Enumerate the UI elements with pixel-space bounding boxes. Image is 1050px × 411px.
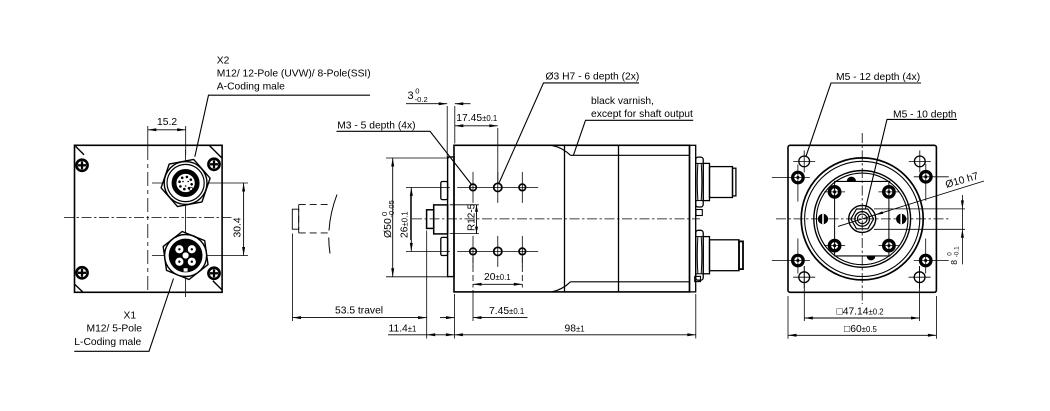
svg-text:11.4±1: 11.4±1 [389,324,417,335]
connector axis vertical line [185,150,187,297]
left view corner chamfer mark bottom-left [75,284,83,292]
svg-text:□47.14±0.2: □47.14±0.2 [837,307,884,318]
right view recess circle inner [816,173,908,265]
right view big flange circle inner [805,161,920,276]
svg-text:-0.2: -0.2 [415,95,428,104]
svg-text:20±0.1: 20±0.1 [484,272,511,283]
front flange plate (3mm, dia 50) [448,157,454,277]
phillips screw bottom-left [76,267,87,278]
middle view horizontal centerline [412,218,700,220]
dimension dia50 extension lines [386,157,449,159]
left view: mounting flange face plate 60x60 [75,145,223,292]
small arrow to body face at travel line [440,317,454,319]
svg-text:-0.1: -0.1 [954,246,961,257]
svg-text:X2: X2 [217,56,230,67]
connector X2 side view on right face [696,157,736,207]
label dia3 leader with underline [499,83,639,184]
connector X2 (M12 12-pole) outer hex nut [161,159,210,206]
dimension 11.4 line and arrows [427,334,455,336]
svg-text:□60±0.5: □60±0.5 [844,324,877,335]
middle view section line 2 [618,145,620,292]
dimension 47.14 extension lines [803,266,805,321]
black side hole right [896,214,906,224]
svg-text:17.45±0.1: 17.45±0.1 [456,113,497,124]
half-disc notch on bottom chord [867,256,875,260]
svg-text:M12/ 12-Pole (UVW)/ 8-Pole(SSI: M12/ 12-Pole (UVW)/ 8-Pole(SSI) [217,69,371,80]
center hub outer circle [849,205,876,232]
dimension 7.45 extension line [472,290,474,321]
dimension 17.45 line and arrows [455,125,498,127]
M3 tapped hole top row 1 [470,184,477,191]
middle view section line 1 [564,145,566,292]
dimension 98 line and arrows [454,334,695,336]
dimension R12-5 extension lines [450,204,479,206]
label M5-10 leader with underline [865,119,957,209]
hole row bottom centerline [457,250,538,252]
svg-text:53.5 travel: 53.5 travel [335,306,383,317]
dimension 26 extension lines [406,186,450,188]
dimension 15.2 extension line right [185,126,187,155]
svg-text:L-Coding male: L-Coding male [74,337,141,348]
counterbored mounting screw hole top-right [921,172,932,183]
svg-text:15.2: 15.2 [157,117,177,128]
svg-text:0: 0 [946,252,953,256]
connector X2 pins [190,183,193,186]
middle view top fillet arc [552,145,571,155]
M5-12depth corner hole bottom-right with crosshair [914,272,925,283]
middle view motor body bottom edge line [571,281,690,283]
svg-text:M12/ 5-Pole: M12/ 5-Pole [87,324,143,335]
phillips screw top-right [208,159,219,170]
svg-text:M5 - 12 depth (4x): M5 - 12 depth (4x) [836,72,920,83]
M3 tapped hole bottom row 2 [519,248,526,255]
svg-text:Ø50: Ø50 [382,218,394,238]
dimension 20 line and arrows [473,283,522,285]
dimension 53.5 travel line and arrows [293,317,427,319]
svg-text:M3 - 5 depth (4x): M3 - 5 depth (4x) [337,121,415,132]
middle view: main housing body outline [454,145,690,292]
dimension 15.2 line and arrows [148,129,186,131]
label X1 leader line [74,279,173,352]
M3 tapped hole bottom row 1 [470,248,477,255]
dimension 53.5 travel extension lines [292,234,294,322]
dimension 60 extension lines [787,296,789,339]
dimension dia50 line and arrows [392,158,394,277]
dia10 h7 leader line [838,181,984,226]
rotor flat chord line left vertical [834,181,836,256]
left view horizontal centerline [64,217,232,219]
label X2 leader line [195,95,370,157]
dimension 8 line with outside arrows [961,195,963,264]
hole dia3 H7 bottom (larger) [494,247,502,255]
half-disc notch on top chord [847,177,855,181]
dimension 98 extension lines [453,294,455,339]
dimension 7.45 line and arrow [473,317,528,319]
connector X2 scallop circle [164,162,207,205]
connector X1 horizontal centerline [152,255,248,257]
dimension 11.4 leader underline [388,334,427,336]
svg-text:Ø3 H7 - 6 depth (2x): Ø3 H7 - 6 depth (2x) [546,72,640,83]
dimension 30.4 line and arrows [243,183,245,256]
counterbored mounting screw hole bottom-left [793,255,804,266]
phillips screw bottom-right [208,268,219,279]
phillips screw top-left [76,160,87,171]
right view: rear housing square [788,145,936,292]
M5-12depth corner hole top-right with crosshair [914,156,925,167]
left view corner chamfer mark bottom-right [213,281,222,290]
rotor flat chord line bottom [834,255,890,257]
output shaft big step [434,205,448,234]
connector X1 black insert disc [169,239,202,272]
svg-text:black varnish,: black varnish, [591,96,654,107]
left view corner chamfer mark top-right [210,146,222,158]
connector X2 horizontal centerline [152,182,248,184]
phantom extended shaft tip rectangle [292,209,298,229]
middle view bottom fillet arc [552,282,571,292]
svg-text:30.4: 30.4 [233,217,244,237]
M3 tapped hole top row 2 [519,184,526,191]
upper dowel boss on front face [441,182,448,200]
left view corner chamfer mark top-left [76,146,84,154]
counterbored mounting screw hole bottom-right [920,255,931,266]
svg-text:26±0.1: 26±0.1 [400,211,411,238]
thin vertical line near shaft tip [409,196,411,240]
black side hole left [818,214,828,224]
svg-text:A-Coding male: A-Coding male [217,82,285,93]
right view recess circle outer [814,171,911,268]
bolt circle cap screw lower-right [884,240,894,250]
dimension 8 extension lines [874,208,965,210]
dimension 26 line and arrows [410,187,412,251]
small tab below X1 [695,276,701,281]
connector X2 pin circle [176,173,195,192]
phantom extended shaft dashed outline [299,204,332,206]
bolt circle cap screw upper-left [829,187,839,197]
dimension 60 line and arrows [788,334,936,336]
dimension 20 extension lines (dashed) [472,257,474,288]
svg-text:98±1: 98±1 [565,324,585,335]
bolt circle cap screw upper-right [884,187,894,197]
dimension 3 -0.2 line with outside arrows [406,103,447,105]
label M3 leader with underline [337,131,472,184]
rotor flat chord line right vertical [888,181,890,256]
rotor flat chord line top [834,180,890,182]
connector X1 (M12 5-pole) outer hex nut [163,232,208,280]
middle view end cap plate right [690,145,696,292]
svg-text:R12-5: R12-5 [467,203,478,231]
svg-text:3: 3 [408,90,414,102]
right view vertical centerline [861,133,863,304]
connector X2 ring [167,164,204,201]
label M5-12 leader with underline [806,83,921,157]
phantom shaft break arc [329,195,337,254]
svg-text:except for shaft output: except for shaft output [591,109,693,120]
left view vertical centerline / extension of dim 15.2 [147,126,149,146]
connector X1 side view on right face [696,230,743,280]
center shaft circle [855,212,870,227]
right view horizontal centerline [776,218,950,220]
bolt circle cap screw lower-left [829,240,839,250]
connector X1 pins (white) [188,258,196,266]
M5-12depth corner hole top-left with crosshair [799,156,810,167]
counterbored mounting screw hole top-left [793,172,804,183]
M5-12depth corner hole bottom-left with crosshair [799,272,810,283]
small tab between connectors [696,210,702,216]
right view big flange circle outer [801,158,923,280]
middle view motor body top edge line [571,154,690,156]
hole dia3 H7 top (larger) [494,183,502,191]
svg-text:X1: X1 [124,311,137,322]
dimension 47.14 line and arrows [804,317,919,319]
output shaft small step [427,210,434,229]
lower dowel boss on front face [441,237,448,255]
center hub hexagon [851,209,874,229]
connector X2 insert black ring [174,171,198,195]
svg-text:-0.05: -0.05 [387,200,396,217]
connector X1 scallop circle [165,235,207,277]
svg-text:8: 8 [949,260,959,265]
center shaft inner circle [857,214,867,224]
dimension 3 -0.2 extension lines [446,106,448,157]
dimension 17.45 extension line [497,128,499,184]
dimension R12-5 line and arrows [476,205,478,234]
svg-text:7.45±0.1: 7.45±0.1 [489,306,524,317]
label black varnish leader with underline [573,120,693,155]
hole row top centerline [457,186,538,188]
